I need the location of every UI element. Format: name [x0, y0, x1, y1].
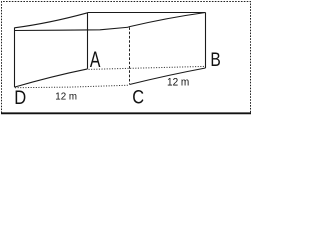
svg-text:D: D — [14, 87, 26, 109]
panel dashed border (top, left, right) — [2, 2, 251, 114]
edge vertical P2-A — [87, 13, 89, 69]
svg-text:C: C — [132, 86, 144, 108]
edge vertical P4-C — [129, 27, 131, 84]
edge D-C (hidden, dotted) — [15, 85, 129, 88]
edge vertical P3-B — [205, 13, 207, 69]
svg-text:A: A — [90, 49, 101, 73]
edge vertical left P1-D — [14, 28, 16, 88]
svg-text:12 m: 12 m — [167, 77, 189, 88]
edge top-left depth P1-P2 — [15, 13, 88, 28]
svg-text:12 m: 12 m — [55, 91, 77, 102]
edge A-B (hidden, dotted) — [89, 66, 206, 69]
edge C-B (depth, solid) — [130, 68, 206, 85]
svg-text:B: B — [210, 48, 220, 70]
edge front-top P1-P4 — [15, 27, 129, 30]
edge D-A (depth, solid) — [15, 69, 88, 87]
edge top-right depth P4-P3 — [129, 13, 206, 27]
edge back-top P2-P3 — [88, 12, 206, 14]
solid bottom rule — [1, 112, 251, 114]
